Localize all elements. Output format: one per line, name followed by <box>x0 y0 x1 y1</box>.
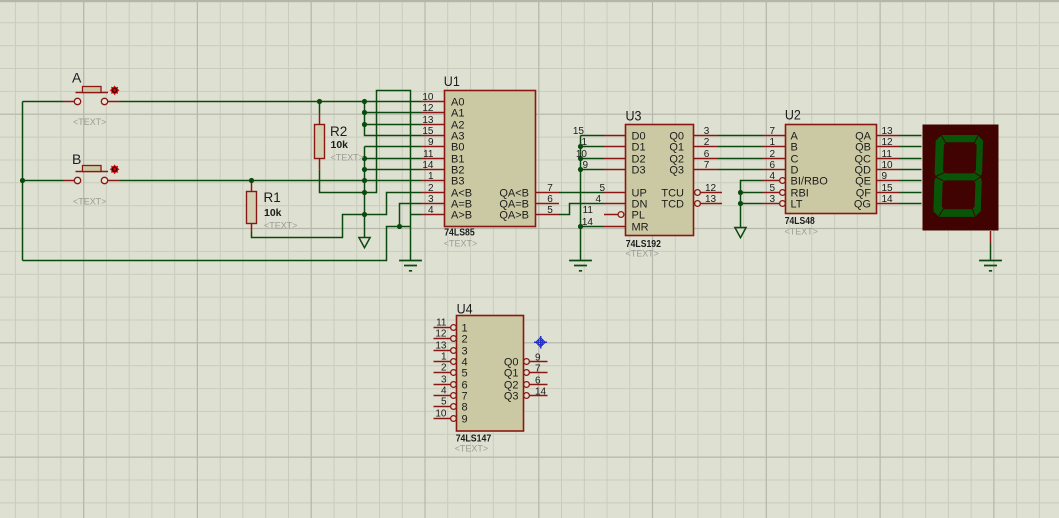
svg-text:2: 2 <box>704 137 710 148</box>
svg-text:R1: R1 <box>264 190 281 205</box>
svg-text:3: 3 <box>704 126 710 137</box>
svg-text:4: 4 <box>595 194 601 205</box>
svg-text:13: 13 <box>882 126 894 137</box>
svg-text:TCD: TCD <box>661 198 684 210</box>
svg-text:1: 1 <box>428 171 434 182</box>
svg-text:QE: QE <box>855 175 871 187</box>
svg-text:14: 14 <box>582 217 594 228</box>
svg-text:9: 9 <box>582 160 588 171</box>
svg-text:A>B: A>B <box>451 209 472 221</box>
svg-text:8: 8 <box>462 401 468 413</box>
svg-text:3: 3 <box>428 194 434 205</box>
svg-text:Q3: Q3 <box>669 164 684 176</box>
svg-text:QG: QG <box>854 198 871 210</box>
svg-text:D3: D3 <box>632 164 646 176</box>
svg-text:4: 4 <box>428 205 434 216</box>
svg-text:7: 7 <box>547 183 553 194</box>
svg-text:2: 2 <box>441 362 447 373</box>
svg-text:A: A <box>72 69 82 85</box>
svg-text:9: 9 <box>462 413 468 425</box>
svg-text:14: 14 <box>422 160 434 171</box>
svg-text:15: 15 <box>422 126 434 137</box>
svg-text:13: 13 <box>422 115 434 126</box>
svg-text:QB: QB <box>855 141 871 153</box>
svg-text:5: 5 <box>599 183 605 194</box>
svg-text:A1: A1 <box>451 107 464 119</box>
svg-text:11: 11 <box>423 149 434 160</box>
svg-text:7: 7 <box>535 363 541 374</box>
svg-text:5: 5 <box>547 205 553 216</box>
svg-text:1: 1 <box>769 137 775 148</box>
svg-text:14: 14 <box>535 386 547 397</box>
svg-text:B: B <box>791 141 798 153</box>
svg-text:2: 2 <box>428 183 434 194</box>
svg-text:9: 9 <box>535 352 541 363</box>
svg-text:13: 13 <box>435 340 447 351</box>
svg-text:Q1: Q1 <box>669 141 684 153</box>
svg-text:PL: PL <box>632 209 645 221</box>
svg-text:3: 3 <box>441 374 447 385</box>
svg-text:5: 5 <box>769 183 775 194</box>
svg-text:U1: U1 <box>444 73 460 89</box>
svg-text:6: 6 <box>535 375 541 386</box>
svg-text:10: 10 <box>435 408 447 419</box>
svg-text:QA>B: QA>B <box>499 209 529 221</box>
svg-text:13: 13 <box>705 194 717 205</box>
svg-text:6: 6 <box>547 194 553 205</box>
svg-text:B3: B3 <box>451 175 464 187</box>
svg-text:<TEXT>: <TEXT> <box>626 249 660 260</box>
svg-text:10k: 10k <box>264 207 282 219</box>
svg-text:9: 9 <box>882 171 888 182</box>
svg-text:LT: LT <box>791 198 803 210</box>
svg-text:4: 4 <box>769 171 775 182</box>
svg-text:<TEXT>: <TEXT> <box>455 443 489 454</box>
svg-text:10: 10 <box>422 92 434 103</box>
svg-text:3: 3 <box>769 194 775 205</box>
svg-text:MR: MR <box>632 221 649 233</box>
svg-text:5: 5 <box>462 367 468 379</box>
svg-text:4: 4 <box>441 385 447 396</box>
svg-text:R2: R2 <box>330 124 347 139</box>
svg-text:12: 12 <box>882 137 894 148</box>
svg-text:<TEXT>: <TEXT> <box>73 117 107 128</box>
svg-text:11: 11 <box>583 205 594 216</box>
svg-text:12: 12 <box>705 183 717 194</box>
svg-text:<TEXT>: <TEXT> <box>73 197 107 208</box>
svg-text:BI/RBO: BI/RBO <box>791 175 829 187</box>
svg-text:74LS85: 74LS85 <box>444 228 475 239</box>
svg-text:<TEXT>: <TEXT> <box>331 153 365 164</box>
svg-text:7: 7 <box>704 160 710 171</box>
svg-text:9: 9 <box>428 137 434 148</box>
svg-text:2: 2 <box>769 149 775 160</box>
svg-text:14: 14 <box>882 194 894 205</box>
svg-text:6: 6 <box>769 160 775 171</box>
svg-text:10: 10 <box>882 160 894 171</box>
svg-text:<TEXT>: <TEXT> <box>444 238 478 249</box>
svg-text:U2: U2 <box>785 107 801 123</box>
svg-text:74LS48: 74LS48 <box>785 216 815 227</box>
svg-text:U3: U3 <box>626 108 642 124</box>
svg-text:Q3: Q3 <box>504 390 519 402</box>
svg-text:12: 12 <box>435 328 447 339</box>
svg-text:11: 11 <box>882 149 893 160</box>
svg-text:U4: U4 <box>457 301 473 317</box>
svg-text:<TEXT>: <TEXT> <box>785 227 819 238</box>
svg-text:B0: B0 <box>451 141 464 153</box>
svg-text:B: B <box>72 151 81 167</box>
svg-text:1: 1 <box>441 351 447 362</box>
svg-text:1: 1 <box>581 137 587 148</box>
svg-text:2: 2 <box>462 333 468 345</box>
svg-text:11: 11 <box>436 317 447 328</box>
svg-text:<TEXT>: <TEXT> <box>264 221 298 232</box>
svg-text:10: 10 <box>576 149 588 160</box>
svg-text:5: 5 <box>441 396 447 407</box>
svg-text:12: 12 <box>422 103 434 114</box>
svg-text:7: 7 <box>769 126 775 137</box>
svg-text:15: 15 <box>573 126 585 137</box>
svg-text:6: 6 <box>704 149 710 160</box>
svg-text:Q1: Q1 <box>504 367 519 379</box>
svg-text:15: 15 <box>882 183 894 194</box>
svg-text:D1: D1 <box>632 141 646 153</box>
svg-text:10k: 10k <box>331 139 349 151</box>
